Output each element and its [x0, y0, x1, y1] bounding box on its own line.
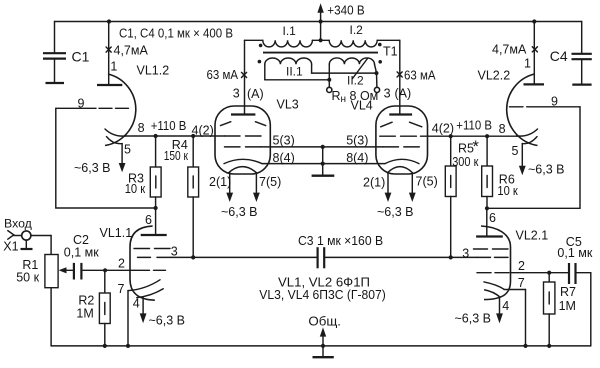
pentode VL3: [215, 106, 270, 174]
wire right grid row y208: [487, 207, 580, 209]
node junction screen grids: [321, 145, 325, 149]
svg-text:0,1 мк: 0,1 мк: [64, 245, 99, 259]
svg-text:3: 3: [462, 246, 469, 260]
capacitor C3: [171, 247, 477, 268]
node junction rail-VL2.2: [532, 19, 536, 23]
svg-text:4: 4: [133, 296, 140, 310]
svg-text:3: 3: [384, 87, 391, 101]
svg-text:6: 6: [489, 211, 496, 225]
svg-text:VL3, VL4 6П3С (Г-807): VL3, VL4 6П3С (Г-807): [259, 288, 386, 302]
svg-text:9: 9: [551, 95, 558, 109]
svg-text:150 к: 150 к: [164, 149, 189, 163]
svg-text:2: 2: [118, 257, 125, 271]
wire center tap to rail: [320, 22, 322, 41]
pentode VL1.1: [128, 208, 171, 300]
svg-text:+110 В: +110 В: [456, 119, 492, 133]
node x marker 63mA right: [397, 72, 402, 77]
wire grid VL1.2 down column: [55, 108, 57, 208]
svg-text:C1: C1: [72, 49, 90, 65]
svg-text:10 к: 10 к: [125, 182, 146, 196]
transformer T1 core: [263, 52, 378, 54]
svg-text:(А): (А): [395, 87, 412, 101]
svg-text:C4: C4: [550, 48, 568, 64]
svg-text:7(5): 7(5): [416, 175, 438, 189]
node junction R4 top: [191, 134, 195, 138]
svg-text:300 к: 300 к: [452, 155, 479, 169]
svg-text:4,7мА: 4,7мА: [492, 42, 527, 56]
svg-text:(А): (А): [247, 87, 264, 101]
svg-text:1: 1: [110, 59, 117, 73]
svg-text:II.1: II.1: [286, 64, 303, 78]
svg-text:4,7мА: 4,7мА: [114, 44, 149, 58]
node x marker 63mA left: [242, 72, 247, 77]
svg-text:7: 7: [118, 282, 125, 296]
svg-text:~6,3 В: ~6,3 В: [528, 163, 565, 177]
wire VL2.1 cathode pin7 to bottom rail: [504, 290, 528, 349]
svg-text:8(4): 8(4): [346, 151, 368, 165]
svg-text:VL4: VL4: [351, 98, 373, 112]
svg-text:*: *: [473, 138, 480, 156]
svg-text:4: 4: [502, 299, 509, 313]
svg-text:+110 В: +110 В: [151, 119, 187, 133]
transformer T1 primary I.1: [245, 40, 330, 47]
wire VL2.2 anode lead: [533, 22, 535, 84]
capacitor C4: [572, 22, 592, 85]
pentode VL4: [376, 106, 428, 174]
wire VL1.1 cathode pin7 to bottom rail: [126, 291, 130, 348]
wire cathode link 8(4): [262, 163, 385, 165]
svg-text:R2: R2: [78, 293, 94, 307]
node junction R3 top: [154, 134, 158, 138]
svg-text:6: 6: [145, 213, 152, 227]
capacitor C5: [569, 263, 591, 346]
ground between VL3 VL4: [312, 147, 335, 176]
svg-text:VL1.1: VL1.1: [100, 226, 133, 240]
svg-text:8: 8: [138, 121, 145, 135]
node junction rail-VL1.2: [107, 19, 111, 23]
svg-text:3: 3: [171, 244, 178, 258]
capacitor C2: [74, 263, 135, 280]
svg-text:0,1 мк: 0,1 мк: [557, 246, 592, 260]
svg-text:~6,3 В: ~6,3 В: [455, 312, 492, 326]
svg-text:5(3): 5(3): [346, 134, 368, 148]
wire VL1.1 heater pin4 arrow: [140, 297, 147, 323]
svg-text:X1: X1: [3, 239, 18, 253]
node junction cathodes: [321, 162, 325, 166]
svg-text:~6,3 В: ~6,3 В: [221, 205, 258, 219]
svg-text:I.1: I.1: [283, 24, 297, 38]
svg-text:7(5): 7(5): [259, 175, 281, 189]
svg-text:5: 5: [124, 143, 131, 157]
wire VL2.1 pin2 line: [511, 271, 570, 275]
svg-text:7: 7: [518, 276, 525, 290]
triode VL1.2: [56, 74, 136, 172]
wire secondary to output terminals: [327, 64, 380, 92]
node junction R5 top: [449, 134, 453, 138]
potentiometer R1: [45, 236, 74, 346]
svg-text:Общ.: Общ.: [308, 314, 341, 328]
wire top +340V rail: [55, 21, 582, 23]
svg-text:R7: R7: [560, 285, 576, 299]
transformer T1 primary I.2: [329, 40, 400, 47]
transformer T1 secondary II.2: [329, 58, 382, 79]
connector X1 input: [8, 231, 51, 249]
wire VL3 heater leads with 6.3V arrows: [226, 173, 259, 202]
svg-text:VL3: VL3: [277, 98, 299, 112]
wire +110V line right: [421, 135, 518, 137]
svg-text:~6,3 В: ~6,3 В: [377, 205, 414, 219]
svg-text:63 мА: 63 мА: [207, 68, 239, 82]
wire +110V line left: [125, 135, 225, 137]
svg-text:~6,3 В: ~6,3 В: [74, 161, 111, 175]
resistor R2: [99, 270, 110, 348]
svg-text:5(3): 5(3): [273, 134, 295, 148]
svg-text:C3 1 мк ×160 В: C3 1 мк ×160 В: [298, 234, 383, 248]
wire VL3 anode column from I.1: [244, 40, 246, 114]
svg-text:T1: T1: [383, 45, 398, 59]
svg-text:1М: 1М: [76, 307, 93, 321]
wire VL1.2 anode lead: [108, 22, 110, 85]
svg-text:1М: 1М: [559, 299, 576, 313]
svg-text:1: 1: [524, 57, 531, 71]
resistor R5: [445, 136, 456, 257]
resistor R3: [150, 136, 161, 208]
svg-text:C1, C4 0,1 мк × 400 В: C1, C4 0,1 мк × 400 В: [119, 26, 233, 40]
svg-text:I.2: I.2: [350, 23, 364, 37]
resistor R6: [482, 136, 493, 208]
wire grid VL2.2 down column: [579, 107, 581, 209]
node x marker 4.7mA left: [106, 47, 111, 52]
svg-text:8(4): 8(4): [273, 151, 295, 165]
svg-text:II.2: II.2: [347, 74, 364, 88]
triode VL2.2: [507, 74, 580, 175]
svg-text:50 к: 50 к: [16, 271, 39, 285]
svg-text:2: 2: [518, 259, 525, 273]
wire VL4 heater leads with 6.3V arrows: [385, 173, 416, 202]
svg-text:VL1.2: VL1.2: [137, 64, 170, 78]
svg-text:Вход: Вход: [4, 217, 32, 231]
node junction R6 top: [485, 134, 489, 138]
svg-text:4(2): 4(2): [432, 122, 454, 136]
pentode VL2.1: [474, 208, 511, 299]
capacitor C1: [43, 22, 66, 84]
svg-text:2(1): 2(1): [363, 176, 385, 190]
svg-text:~6,3 В: ~6,3 В: [149, 313, 186, 327]
svg-text:2(1): 2(1): [209, 175, 231, 189]
node x marker 4.7mA right: [532, 47, 537, 52]
wire VL4 anode column from I.2: [399, 40, 401, 114]
svg-text:63 мА: 63 мА: [404, 68, 436, 82]
svg-text:5: 5: [512, 144, 519, 158]
node junction rail-tap: [319, 19, 323, 23]
svg-text:9: 9: [78, 96, 85, 110]
svg-text:8: 8: [499, 122, 506, 136]
transformer T1 secondary II.1: [258, 58, 377, 80]
wire left grid row y208: [56, 207, 156, 209]
svg-text:VL2.2: VL2.2: [478, 69, 511, 83]
resistor R4: [188, 136, 199, 257]
wire screen grid link 5(3): [261, 146, 383, 148]
wire bottom common rail: [51, 345, 591, 347]
resistor R7: [544, 273, 555, 348]
svg-text:4(2): 4(2): [192, 124, 214, 138]
svg-text:10 к: 10 к: [497, 184, 518, 198]
ground Obshch common symbol: [313, 327, 334, 357]
svg-text:+340 В: +340 В: [327, 3, 364, 17]
svg-text:3: 3: [233, 86, 240, 100]
node +340V arrow: [317, 3, 323, 21]
wire VL2.1 heater pin4 arrow: [496, 297, 503, 323]
svg-text:VL2.1: VL2.1: [516, 229, 549, 243]
